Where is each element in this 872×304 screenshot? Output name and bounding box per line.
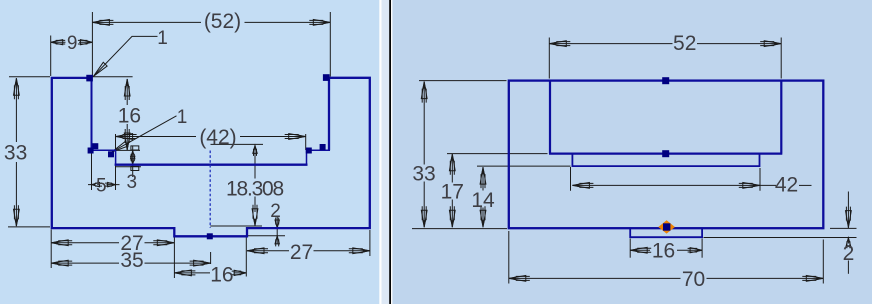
svg-text:(52): (52) <box>204 10 241 33</box>
svg-text:52: 52 <box>673 32 696 55</box>
svg-text:3: 3 <box>127 172 138 193</box>
svg-text:27: 27 <box>290 241 313 264</box>
svg-text:33: 33 <box>412 163 435 186</box>
svg-text:17: 17 <box>441 181 464 204</box>
svg-text:5: 5 <box>96 175 107 196</box>
svg-text:35: 35 <box>120 249 143 272</box>
svg-text:1: 1 <box>157 28 168 49</box>
svg-text:1: 1 <box>177 107 188 128</box>
svg-text:2: 2 <box>270 201 281 222</box>
svg-text:42: 42 <box>775 174 798 197</box>
svg-text:2: 2 <box>843 242 855 265</box>
svg-text:70: 70 <box>682 268 705 291</box>
svg-text:16: 16 <box>210 263 233 286</box>
svg-text:18.308: 18.308 <box>226 177 284 200</box>
svg-text:16: 16 <box>118 104 141 127</box>
svg-text:33: 33 <box>4 142 27 165</box>
svg-text:16: 16 <box>652 240 675 263</box>
svg-text:(42): (42) <box>199 126 236 149</box>
svg-text:9: 9 <box>67 33 78 54</box>
svg-text:14: 14 <box>471 189 495 212</box>
